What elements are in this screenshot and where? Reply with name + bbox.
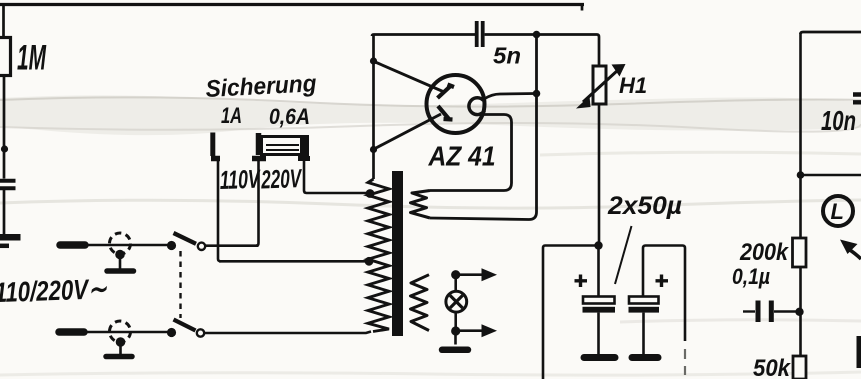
wire C2 down bbox=[642, 313, 645, 354]
wire top rail end tick bbox=[581, 3, 584, 11]
capacitor 0,1µ bbox=[743, 310, 755, 312]
capacitor C2 plates bbox=[629, 297, 659, 304]
node junction on left wire bbox=[1, 145, 8, 152]
wire from top rail down to R 1M bbox=[2, 5, 5, 38]
lamp cross bbox=[450, 295, 463, 308]
node junction upper mains bbox=[167, 241, 176, 250]
node junction lower mains bbox=[167, 328, 176, 337]
wire top rail bbox=[0, 3, 584, 6]
wire heater return vertical bbox=[430, 36, 537, 220]
wire to ground stub bbox=[454, 336, 457, 345]
switch S1b blade bbox=[174, 320, 196, 331]
wire C2 faint continue bbox=[684, 349, 686, 375]
svg-text:5n: 5n bbox=[493, 43, 521, 69]
mains lead lower bbox=[59, 328, 84, 336]
node junction right y175 bbox=[797, 171, 805, 179]
wire 110V tap bbox=[219, 260, 369, 263]
resistor 50k body bbox=[793, 356, 806, 379]
wire 5n to H1 corner bbox=[485, 35, 599, 67]
wire right section top rail bbox=[801, 32, 861, 34]
wire switch S1a to fuse bbox=[206, 244, 259, 247]
switch S1a contact bbox=[198, 243, 205, 250]
wire node to C1 bbox=[597, 246, 600, 298]
transformer T1 primary winding bbox=[368, 179, 389, 332]
wire diagonal to anode 1 bbox=[374, 62, 443, 92]
component stub right edge bottom bbox=[857, 336, 861, 368]
ground bar C1 bbox=[584, 354, 615, 361]
node 220V tap junction bbox=[366, 189, 375, 198]
svg-text:1M: 1M bbox=[17, 39, 47, 78]
node lamp bottom junction bbox=[451, 326, 460, 335]
tube V1 envelope bbox=[427, 75, 485, 133]
fuse holder contact 1A bbox=[210, 133, 215, 157]
ground lamp bbox=[442, 347, 468, 354]
node 110V tap junction bbox=[365, 257, 374, 266]
arrow output top bbox=[460, 273, 483, 276]
transformer core bbox=[392, 171, 403, 336]
svg-text:L: L bbox=[831, 199, 844, 224]
fuse F1 0,6A left contact bbox=[256, 133, 262, 155]
tube cathode filament hook bbox=[469, 98, 485, 115]
wire below capacitor bbox=[3, 190, 6, 234]
svg-text:1A: 1A bbox=[221, 103, 242, 128]
lamp La envelope bbox=[446, 291, 467, 312]
node anode junction 2 bbox=[370, 146, 377, 153]
wire cathode to node bbox=[484, 94, 536, 100]
svg-text:0,1µ: 0,1µ bbox=[732, 264, 770, 289]
ground left bbox=[0, 234, 21, 241]
capacitor C1 plates bbox=[583, 297, 615, 304]
transformer heater winding bbox=[411, 191, 431, 219]
wire C1 down bbox=[597, 313, 600, 354]
plug connector upper bbox=[110, 233, 131, 254]
node junction below H1 bbox=[594, 241, 602, 249]
node anode junction 1 bbox=[370, 57, 377, 64]
wire switch S1b to transformer primary bottom bbox=[205, 332, 372, 334]
wire lamp bottom lead bbox=[454, 312, 457, 328]
svg-text:200k: 200k bbox=[739, 239, 789, 266]
capacitor left (plates) bbox=[0, 181, 16, 189]
node lamp top junction bbox=[451, 270, 460, 279]
svg-text:110/220V∼: 110/220V∼ bbox=[0, 273, 108, 308]
wire diagonal to anode 2 bbox=[374, 114, 441, 149]
coil L circled bbox=[823, 196, 853, 226]
resistor H1 arrow bbox=[583, 70, 618, 102]
wire left vertical of tube section bbox=[372, 35, 375, 179]
svg-text:0,6A: 0,6A bbox=[269, 104, 310, 129]
leader line 2x50µ bbox=[615, 226, 632, 284]
wire branch right at y175 bbox=[801, 174, 861, 177]
wire fuse left down to switch bbox=[256, 161, 259, 246]
wire below 1M bbox=[3, 76, 6, 179]
mains lead upper bbox=[60, 241, 85, 249]
ground bar C2 bbox=[632, 354, 658, 361]
svg-text:50k: 50k bbox=[753, 355, 792, 379]
svg-text:110V: 110V bbox=[219, 164, 262, 195]
wire lamp top lead bbox=[454, 279, 457, 292]
svg-text:2x50µ: 2x50µ bbox=[607, 192, 682, 220]
wire left branch from node bbox=[543, 246, 598, 379]
wire H1 down bbox=[598, 104, 601, 246]
node junction 0,1µ bbox=[795, 308, 803, 316]
arrow output bottom bbox=[460, 329, 483, 332]
wire right section vertical bbox=[799, 33, 802, 238]
wire 1A contact down bbox=[218, 161, 221, 261]
gang dashed link of switch bbox=[179, 251, 181, 318]
svg-text:AZ 41: AZ 41 bbox=[428, 141, 496, 172]
svg-text:220V: 220V bbox=[260, 163, 303, 194]
wire C2 up and over bbox=[643, 246, 685, 342]
node junction on rail at x536 bbox=[533, 31, 541, 39]
resistor 200k body bbox=[793, 238, 807, 267]
capacitor right edge plates bbox=[853, 95, 861, 103]
wire rail to rectifier section bbox=[372, 35, 475, 37]
plug connector lower bbox=[110, 321, 131, 342]
wire filament lead loop bbox=[430, 115, 512, 191]
resistor 1M bbox=[0, 38, 11, 76]
capacitor C 5n plates bbox=[475, 21, 479, 47]
node cathode junction bbox=[533, 90, 541, 98]
switch S1b contact bbox=[197, 329, 204, 336]
pot arrow right edge bbox=[850, 250, 861, 259]
wire 220V tap bbox=[304, 161, 369, 193]
resistor H1 body bbox=[593, 66, 606, 104]
capacitor C1 50µ plus bbox=[575, 275, 588, 288]
svg-text:H1: H1 bbox=[619, 73, 647, 98]
svg-text:10n: 10n bbox=[821, 105, 856, 136]
tube anode plate 1 bbox=[438, 85, 455, 99]
transformer lamp winding bbox=[411, 275, 430, 331]
fuse F1 body bbox=[262, 137, 308, 155]
switch S1a blade bbox=[174, 233, 197, 244]
capacitor C2 50µ plus bbox=[656, 275, 669, 288]
tube anode plate 2 bbox=[438, 106, 453, 120]
